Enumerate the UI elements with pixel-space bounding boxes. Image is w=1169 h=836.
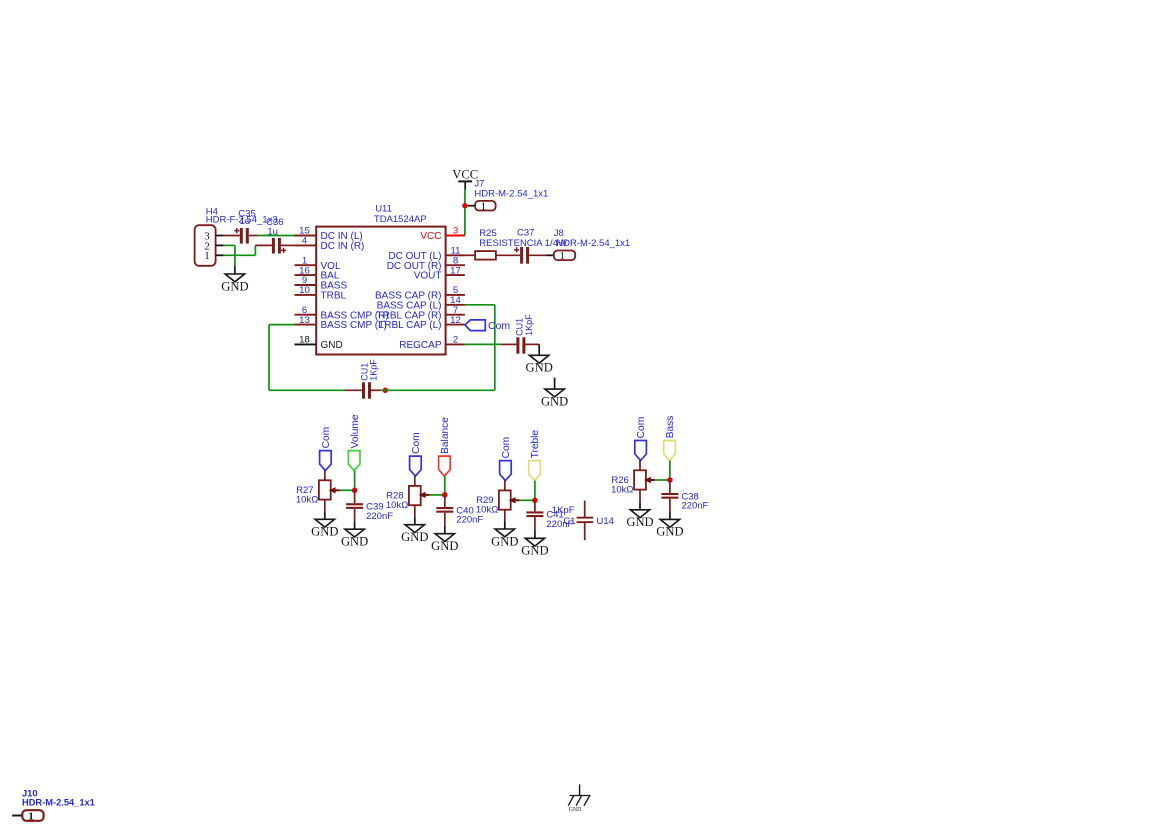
junction (bottom cap) [383, 388, 389, 394]
ground (R27) [315, 519, 334, 527]
wire junction to C38 [669, 480, 671, 493]
wire Treble flag to junction [534, 481, 536, 501]
svg-text:18: 18 [299, 335, 310, 346]
svg-text:Treble: Treble [530, 430, 541, 459]
pin 18 GND (U11 left) [295, 343, 317, 345]
wire C38 to ground [669, 499, 671, 512]
svg-text:10kΩ: 10kΩ [296, 495, 318, 506]
pin 17 VOUT (U11 right) [446, 274, 465, 276]
svg-text:10: 10 [299, 285, 310, 296]
svg-text:1: 1 [481, 201, 487, 213]
wiper arrow R29 [520, 499, 535, 501]
svg-text:GND: GND [526, 361, 553, 375]
pin 16 BAL (U11 left) [295, 274, 317, 276]
pin 14 BASS CAP (L) (U11 right) [446, 304, 465, 306]
wire R28 to ground [414, 505, 416, 517]
wire Com flag to R28 [414, 476, 416, 486]
svg-text:U11: U11 [375, 204, 392, 215]
wiper arrow R27 [340, 489, 355, 491]
ground (R28) [405, 525, 424, 533]
wire VCC to pin 3 [464, 190, 466, 236]
svg-text:TRBL CAP (L): TRBL CAP (L) [378, 320, 441, 331]
ground (C39) [345, 529, 364, 537]
junction (R27) [352, 488, 358, 494]
junction (R26) [667, 477, 673, 483]
wiper arrow R26 [655, 479, 670, 481]
svg-text:1u: 1u [240, 216, 251, 227]
svg-text:TRBL: TRBL [321, 291, 347, 302]
svg-text:VOUT: VOUT [414, 271, 442, 282]
ground (REGCAP) [530, 355, 549, 363]
svg-text:Com: Com [636, 417, 647, 439]
junction VCC/J7 [462, 203, 467, 208]
svg-text:DC IN (R): DC IN (R) [321, 241, 365, 252]
pin 3 (H4) [216, 235, 224, 237]
svg-text:10kΩ: 10kΩ [476, 505, 498, 516]
svg-text:GND: GND [491, 534, 518, 548]
pin 2 REGCAP (U11 right) [446, 343, 465, 345]
wire Com flag to R29 [504, 481, 506, 491]
wire C39 to ground [354, 509, 356, 521]
svg-text:GND: GND [401, 530, 428, 544]
ground (R26) [630, 510, 649, 518]
svg-text:17: 17 [450, 265, 461, 276]
svg-text:13: 13 [299, 315, 310, 326]
svg-text:220nF: 220nF [681, 501, 708, 512]
svg-text:1: 1 [204, 250, 210, 262]
pin 11 DC OUT (L) (U11 right) [446, 254, 465, 256]
wire Volume flag to junction [354, 471, 356, 491]
pin 4 DC IN (R) (U11 left) [295, 244, 317, 246]
svg-text:1: 1 [28, 810, 34, 822]
svg-text:C37: C37 [517, 227, 534, 238]
wire Balance flag to junction [444, 476, 446, 495]
svg-text:10kΩ: 10kΩ [386, 500, 408, 511]
ground (C40) [435, 534, 454, 542]
wire Com flag to R27 [324, 471, 326, 481]
wiper arrow R28 [430, 494, 445, 496]
svg-text:HDR-M-2.54_1x1: HDR-M-2.54_1x1 [474, 189, 548, 200]
wire pin 11 to R25 [465, 254, 475, 256]
svg-text:Bass: Bass [665, 416, 676, 439]
svg-text:1u: 1u [267, 226, 278, 237]
wire C41 to ground [534, 517, 536, 530]
svg-text:GND: GND [521, 544, 548, 558]
svg-text:12: 12 [450, 315, 461, 326]
svg-text:REGCAP: REGCAP [399, 340, 442, 351]
svg-text:Volume: Volume [350, 414, 361, 448]
svg-text:Com: Com [411, 432, 422, 454]
svg-text:220nF: 220nF [366, 511, 393, 522]
svg-text:4: 4 [302, 236, 308, 247]
svg-text:R25: R25 [479, 228, 496, 239]
pin 13 BASS CMP (L) (U11 left) [295, 324, 317, 326]
svg-text:GND: GND [311, 525, 338, 539]
pin 6 BASS CMP (R) (U11 left) [295, 314, 317, 316]
wire Bass flag to junction [669, 461, 671, 481]
chassis ground [579, 784, 581, 795]
svg-text:RESISTENCIA 1/4W: RESISTENCIA 1/4W [479, 238, 567, 249]
wire junction to C40 [444, 495, 446, 507]
label Com (pin 12) [465, 320, 485, 331]
ground (R29) [495, 529, 514, 537]
svg-text:GND: GND [221, 279, 248, 293]
wire H4.1 to C36 [224, 254, 256, 256]
wire C to pin 14 [381, 389, 495, 391]
wire pin 13 to C (bottom) [269, 324, 295, 326]
pin 8 DC OUT (R) (U11 right) [446, 264, 465, 266]
svg-text:Balance: Balance [440, 417, 451, 454]
wire H4.3 to C35 [224, 235, 240, 237]
wire R26 to ground [639, 490, 641, 502]
svg-text:VCC: VCC [420, 231, 441, 242]
wire R27 to ground [324, 500, 326, 512]
svg-text:GND: GND [341, 535, 368, 549]
svg-text:2: 2 [453, 335, 458, 346]
svg-text:1KpF: 1KpF [369, 359, 379, 381]
svg-text:GND: GND [569, 807, 582, 813]
svg-text:220nF: 220nF [456, 515, 483, 526]
pin 10 TRBL (U11 left) [295, 294, 317, 296]
wire Com flag to R26 [639, 461, 641, 471]
ground (C41) [525, 538, 544, 546]
pin 9 BASS (U11 left) [295, 284, 317, 286]
junction (R28) [442, 492, 448, 498]
wire junction to C41 [534, 500, 536, 511]
svg-text:GND: GND [656, 525, 683, 539]
pin 1 (H4) [216, 254, 224, 256]
wire R25 to C37 [496, 254, 520, 256]
svg-text:Com: Com [488, 320, 510, 332]
svg-text:TDA1524AP: TDA1524AP [374, 214, 427, 225]
svg-text:1: 1 [559, 250, 565, 262]
ground (H4) [225, 274, 244, 282]
svg-text:Com: Com [501, 437, 512, 459]
svg-text:HDR-M-2.54_1x1: HDR-M-2.54_1x1 [556, 238, 630, 249]
svg-text:C1: C1 [563, 516, 575, 527]
svg-text:BASS CMP (L): BASS CMP (L) [321, 320, 388, 331]
pin 5 BASS CAP (R) (U11 right) [446, 294, 465, 296]
svg-text:3: 3 [453, 226, 458, 237]
ground (C38) [660, 519, 679, 527]
wire C35 to pin 15 [258, 235, 295, 237]
wire junction to C39 [354, 490, 356, 503]
wire R29 to ground [504, 510, 506, 521]
svg-text:HDR-M-2.54_1x1: HDR-M-2.54_1x1 [22, 797, 95, 807]
wire C40 to ground [444, 513, 446, 526]
pin 15 DC IN (L) (U11 left) [295, 235, 317, 237]
svg-text:GND: GND [626, 515, 653, 529]
svg-text:U14: U14 [597, 516, 614, 527]
svg-text:1KpF: 1KpF [552, 505, 575, 516]
junction (R29) [532, 498, 538, 504]
wire pin 2 (REGCAP) [465, 343, 501, 345]
wire H4.2 to GND [224, 244, 235, 246]
pin 3 VCC (U11 right) [446, 235, 465, 237]
pin 7 TRBL CAP (R) (U11 right) [446, 314, 465, 316]
ground (floating) [554, 378, 556, 390]
svg-text:Com: Com [321, 427, 332, 449]
pin 1 VOL (U11 left) [295, 264, 317, 266]
svg-text:GND: GND [541, 394, 568, 408]
svg-text:GND: GND [431, 539, 458, 553]
pin 2 (H4) [216, 244, 224, 246]
pin 12 TRBL CAP (L) (U11 right) [446, 324, 465, 326]
svg-text:10kΩ: 10kΩ [611, 485, 633, 496]
op-amp U11 TDA1524AP body [316, 227, 445, 355]
svg-text:GND: GND [321, 340, 343, 351]
svg-text:1KpF: 1KpF [524, 314, 534, 336]
